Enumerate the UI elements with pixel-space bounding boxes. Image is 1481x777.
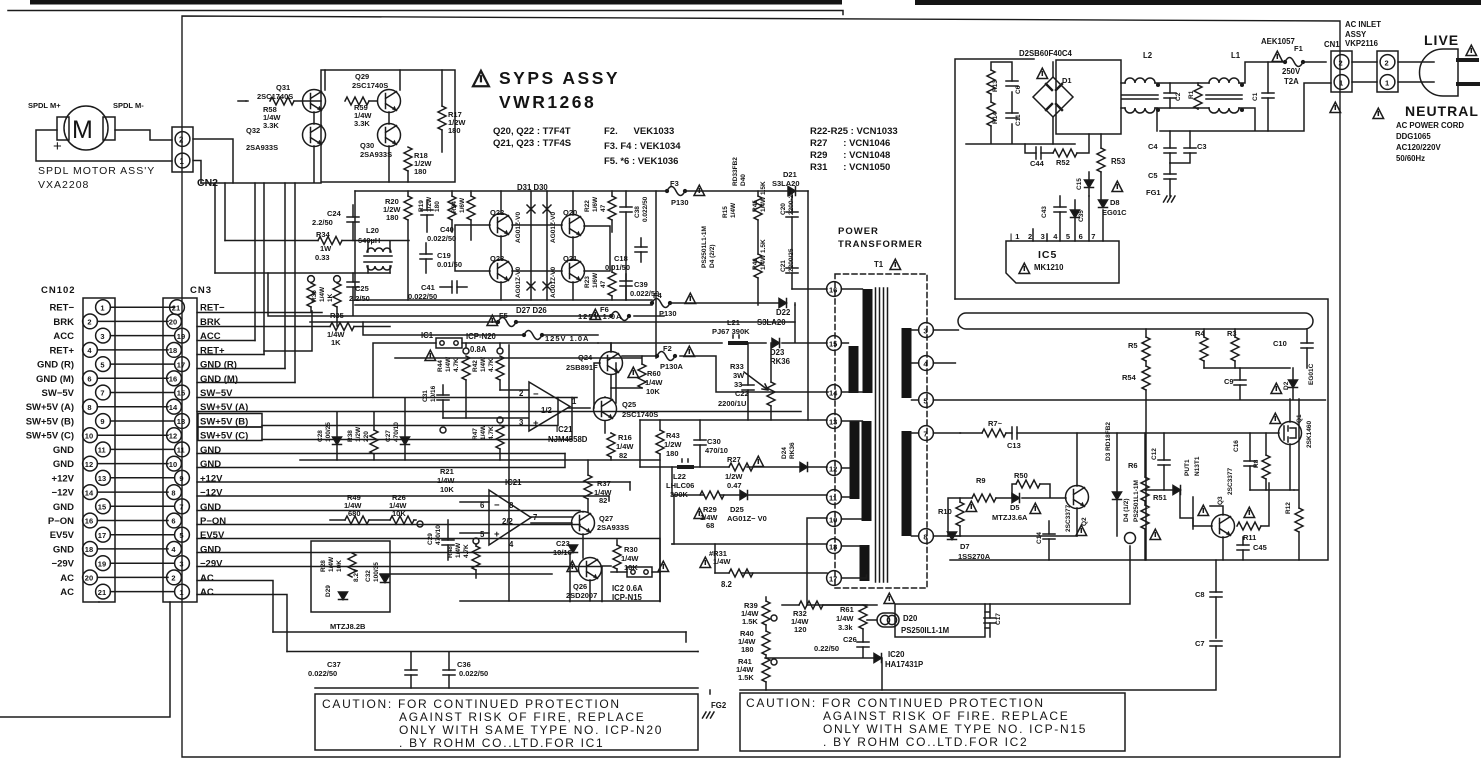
resistor R59 — [345, 97, 369, 105]
svg-text:17: 17 — [829, 574, 837, 583]
wire RET- row — [197, 312, 322, 314]
svg-text:1K: 1K — [331, 338, 341, 347]
capacitor C44 — [1036, 147, 1041, 159]
svg-text:R54: R54 — [1122, 373, 1137, 382]
svg-text:D40: D40 — [740, 174, 747, 186]
R11 — [1237, 522, 1261, 530]
pin7 rail R7 C13 — [960, 432, 1279, 434]
svg-text:C29: C29 — [427, 533, 434, 545]
op-amp IC21 2/2 — [489, 490, 531, 545]
svg-text:D21: D21 — [783, 170, 797, 179]
pin11 row: R29 D25 — [674, 494, 827, 496]
svg-text:AC: AC — [200, 573, 214, 584]
T1 pin 7 — [919, 426, 934, 441]
svg-text:1: 1 — [100, 303, 104, 312]
T1 pin 17 — [827, 571, 842, 586]
wires L2 to L1 — [1155, 83, 1209, 108]
svg-text:13: 13 — [829, 417, 837, 426]
R28 D29 C32 box — [311, 541, 390, 612]
CN102 pin 8 (SW+5V (A)) — [83, 399, 98, 414]
svg-text:F4: F4 — [653, 291, 663, 300]
svg-text:D7: D7 — [960, 542, 970, 551]
svg-text:6: 6 — [87, 375, 91, 384]
T1 pin 14 — [827, 385, 842, 400]
svg-text:R61: R61 — [840, 605, 854, 614]
svg-text:Q3: Q3 — [1217, 496, 1224, 505]
svg-text:1/4W: 1/4W — [730, 202, 737, 218]
svg-text:DDG1065: DDG1065 — [1396, 132, 1431, 141]
svg-text:1/4W: 1/4W — [455, 542, 462, 558]
svg-text:Q25: Q25 — [622, 400, 636, 409]
AC feed wires to transformer bottom — [570, 482, 660, 602]
transistor Q2 — [1066, 486, 1089, 509]
CN3 pin 3 (-29V) — [175, 556, 190, 571]
svg-text:4.7K: 4.7K — [463, 544, 470, 558]
T1 pin 10 — [827, 512, 842, 527]
svg-text:POWER: POWER — [838, 226, 879, 237]
svg-text:NEUTRAL: NEUTRAL — [1405, 103, 1479, 119]
svg-text:F3. F4 : VEK1034: F3. F4 : VEK1034 — [604, 141, 681, 152]
svg-text:2/2: 2/2 — [502, 517, 514, 526]
svg-text:P130: P130 — [671, 198, 689, 207]
CN3 pin 7 (GND) — [175, 499, 190, 514]
CN3 pin 1 (AC) — [175, 584, 190, 599]
svg-text:1: 1 — [1339, 78, 1343, 87]
svg-text:C5: C5 — [1148, 171, 1158, 180]
svg-text:SW+5V (A): SW+5V (A) — [26, 402, 74, 413]
svg-text:1: 1 — [572, 397, 577, 406]
winding bar primary A — [863, 289, 873, 393]
svg-text:4: 4 — [87, 346, 92, 355]
svg-text:C17: C17 — [995, 613, 1002, 625]
CN3 pin 4 (GND) — [167, 542, 182, 557]
svg-text:3.3K: 3.3K — [263, 121, 279, 130]
transistor Q20 — [562, 215, 585, 238]
svg-text:R16: R16 — [618, 433, 632, 442]
svg-text:AC POWER CORD: AC POWER CORD — [1396, 121, 1464, 130]
svg-text:GND: GND — [200, 544, 221, 555]
winding bar C — [850, 421, 860, 499]
CN3 pin 17 (GND (R)) — [175, 357, 190, 372]
svg-text:F5. *6 : VEK1036: F5. *6 : VEK1036 — [604, 156, 678, 167]
CN102 pin 3 (ACC) — [96, 328, 111, 343]
svg-text:D27 D26: D27 D26 — [516, 306, 547, 315]
svg-text:C13: C13 — [1007, 441, 1021, 450]
svg-text:180: 180 — [448, 126, 461, 135]
svg-text:82: 82 — [599, 496, 607, 505]
svg-text:R44: R44 — [437, 360, 444, 372]
svg-text:SW−5V: SW−5V — [42, 388, 75, 399]
svg-text:CN1: CN1 — [1324, 40, 1340, 49]
resistor R60 — [638, 364, 646, 388]
connector CN2 — [172, 127, 193, 172]
svg-text:4: 4 — [509, 540, 514, 549]
svg-text:1SS270A: 1SS270A — [958, 552, 991, 561]
CN3 pin 8 (-12V) — [167, 485, 182, 500]
CN3 pin 6 (P-ON) — [167, 513, 182, 528]
svg-text:NJM4558D: NJM4558D — [548, 435, 588, 444]
svg-text:Q29: Q29 — [355, 72, 369, 81]
svg-text:33: 33 — [734, 380, 742, 389]
svg-text:IC21: IC21 — [505, 478, 522, 487]
svg-text:125V 1.0A: 125V 1.0A — [578, 312, 622, 321]
svg-text:12: 12 — [169, 431, 177, 440]
warning triangle title — [473, 71, 489, 86]
svg-text:T1: T1 — [874, 260, 884, 269]
R58 left feeder — [238, 100, 246, 102]
svg-text:0.022/50: 0.022/50 — [308, 669, 337, 678]
svg-text:1: 1 — [1385, 78, 1389, 87]
svg-text:12: 12 — [85, 460, 93, 469]
svg-text:1/4W: 1/4W — [616, 442, 634, 451]
svg-text:Q23: Q23 — [490, 254, 504, 263]
svg-text:|1 2 3 4 5 6 7: |1 2 3 4 5 6 7 — [1010, 232, 1099, 241]
svg-text:Q32: Q32 — [246, 126, 260, 135]
bridge rectifier D1 diamond — [1033, 77, 1073, 117]
wires CN1 to inlet to plug — [1352, 62, 1434, 82]
svg-text:Q20: Q20 — [563, 208, 577, 217]
AC inlet connector VKP2116 — [1377, 51, 1398, 92]
wire SW-5V row — [197, 397, 577, 399]
wire P-ON row — [197, 524, 580, 526]
CN3 pin 11 (GND) — [175, 442, 190, 457]
svg-text:10: 10 — [829, 515, 837, 524]
winding bar G secondary — [902, 431, 912, 536]
svg-text:C43: C43 — [1041, 206, 1048, 218]
CN102 pin 2 (BRK) — [83, 314, 98, 329]
svg-text:220: 220 — [363, 431, 370, 442]
svg-text:16: 16 — [829, 285, 837, 294]
svg-text:21: 21 — [172, 303, 180, 312]
transistor Q32 — [303, 124, 326, 147]
svg-text:D23: D23 — [770, 348, 785, 357]
svg-text:AEK1057: AEK1057 — [1261, 37, 1295, 46]
svg-text:0.022/50: 0.022/50 — [459, 669, 488, 678]
svg-text:9: 9 — [179, 474, 183, 483]
svg-text:0.022/50: 0.022/50 — [427, 234, 456, 243]
svg-text:2.2/50: 2.2/50 — [312, 218, 333, 227]
svg-text:C26: C26 — [843, 635, 857, 644]
svg-text:16: 16 — [169, 375, 177, 384]
svg-text:VXA2208: VXA2208 — [38, 179, 89, 191]
svg-text:C45: C45 — [1253, 543, 1267, 552]
svg-text:CN3: CN3 — [190, 285, 212, 296]
svg-text:16: 16 — [85, 517, 93, 526]
F6 row — [268, 273, 664, 316]
wire +12V row — [197, 481, 630, 483]
wires L20 area — [368, 241, 390, 273]
svg-text:CN102: CN102 — [41, 285, 76, 296]
svg-text:7: 7 — [923, 429, 927, 438]
heavy bus from pin 3 — [958, 313, 1313, 329]
svg-text:250V: 250V — [1282, 67, 1301, 76]
CN102 pin 16 (P-ON) — [83, 513, 98, 528]
warning triangle near D1 — [1037, 68, 1048, 78]
svg-text:D2: D2 — [1283, 381, 1290, 390]
transistor Q26 — [579, 558, 602, 581]
svg-text:C6: C6 — [1015, 85, 1022, 94]
svg-text:RET+: RET+ — [49, 345, 74, 356]
resistor R1 — [1194, 85, 1202, 109]
fuse F1 — [1284, 58, 1305, 67]
wire GND (R) row — [197, 368, 285, 370]
svg-text:2SA933S: 2SA933S — [360, 150, 392, 159]
svg-text:C40: C40 — [440, 225, 454, 234]
svg-text:R33: R33 — [730, 362, 744, 371]
label boxes SW+5V (B)/(C) — [198, 414, 262, 428]
svg-text:C23: C23 — [556, 539, 570, 548]
wire GND11 row — [197, 453, 565, 455]
CN3 pin 14 (SW+5V (A)) — [167, 399, 182, 414]
CN3 pin 16 (GND (M)) — [167, 371, 182, 386]
svg-text:7: 7 — [179, 503, 183, 512]
svg-text:14: 14 — [829, 388, 838, 397]
svg-text:R9: R9 — [976, 476, 986, 485]
svg-text:EV5V: EV5V — [50, 530, 75, 541]
svg-text:R8: R8 — [1253, 459, 1260, 468]
svg-text:. BY ROHM CO..LTD.FOR IC1: . BY ROHM CO..LTD.FOR IC1 — [399, 736, 604, 750]
svg-text:FG2: FG2 — [711, 701, 727, 710]
svg-text:GND: GND — [53, 502, 74, 513]
svg-text:C16: C16 — [1233, 440, 1240, 452]
svg-text:F2. VEK1033: F2. VEK1033 — [604, 126, 674, 137]
svg-text:8.2: 8.2 — [721, 580, 733, 589]
capacitor C1 — [1262, 93, 1274, 98]
op-amp IC21 1/2 — [529, 382, 570, 431]
wire BRK row — [197, 326, 390, 328]
D2 EG01C — [1271, 383, 1282, 393]
T1 pin 18 — [827, 539, 842, 554]
svg-text:−12V: −12V — [52, 488, 75, 499]
svg-text:+12V: +12V — [52, 473, 75, 484]
top-right thick bar — [915, 0, 1481, 5]
svg-text:14: 14 — [85, 488, 94, 497]
svg-text:S3LA20: S3LA20 — [772, 179, 800, 188]
bottom rail D27 D26 — [355, 299, 652, 301]
svg-text:2SC3377: 2SC3377 — [1227, 468, 1234, 495]
svg-text:R28: R28 — [320, 560, 327, 572]
svg-text:PS2501L1-1M: PS2501L1-1M — [701, 226, 708, 268]
CN102 pin 7 (SW-5V) — [96, 385, 111, 400]
IC5 pin stubs — [1033, 196, 1103, 241]
svg-text:1/4W: 1/4W — [713, 557, 731, 566]
CN3 pin 20 (BRK) — [167, 314, 182, 329]
staircase verticals — [640, 420, 715, 573]
svg-text:R6: R6 — [1128, 461, 1138, 470]
svg-text:15: 15 — [177, 389, 185, 398]
svg-text:2: 2 — [1385, 58, 1389, 67]
F4 row — [355, 303, 780, 305]
svg-text:0.22/50: 0.22/50 — [814, 644, 839, 653]
pin15 line with L21 and D23 — [598, 342, 827, 344]
wire CN2 pin2 right then down — [193, 139, 233, 183]
wire GND7 row — [197, 510, 580, 512]
CN3 pin 19 (ACC) — [175, 328, 190, 343]
op-amp section frame lines — [380, 345, 641, 601]
wire AC2 row — [197, 581, 273, 633]
svg-text:D29: D29 — [325, 585, 332, 597]
R30 — [613, 545, 621, 569]
CN102 pin 21 (AC) — [96, 584, 111, 599]
svg-text:Q31: Q31 — [276, 83, 290, 92]
svg-text:IC20: IC20 — [888, 650, 905, 659]
svg-text:47: 47 — [600, 204, 607, 212]
svg-text:3.3K: 3.3K — [354, 119, 370, 128]
svg-text:D8: D8 — [1110, 198, 1120, 207]
svg-text:GND: GND — [200, 459, 221, 470]
svg-text:ONLY WITH SAME TYPE NO. ICP-N1: ONLY WITH SAME TYPE NO. ICP-N15 — [823, 722, 1087, 736]
svg-text:R5: R5 — [1128, 341, 1138, 350]
top rail — [355, 190, 808, 192]
wire GND (M) row — [197, 382, 295, 384]
svg-text:R60: R60 — [647, 369, 661, 378]
svg-text:AC: AC — [200, 587, 214, 598]
transistor Q3 — [1212, 515, 1235, 538]
Q1 2SK1460 MOSFET — [1270, 413, 1281, 423]
svg-text:Q2: Q2 — [1081, 517, 1088, 526]
svg-text:ONLY WITH SAME TYPE NO. ICP-N2: ONLY WITH SAME TYPE NO. ICP-N20 — [399, 723, 663, 737]
svg-text:IC1: IC1 — [421, 331, 434, 340]
svg-text:C20: C20 — [780, 203, 787, 215]
svg-text:Q21, Q23 : T7F4S: Q21, Q23 : T7F4S — [493, 138, 571, 149]
svg-text:AC: AC — [60, 573, 74, 584]
transistor Q21 — [562, 260, 585, 283]
wire motor right to CN2 pin2 — [115, 130, 172, 140]
svg-text:R37: R37 — [597, 479, 611, 488]
svg-text:2: 2 — [171, 574, 175, 583]
diode marks D31/D30 columns — [527, 191, 551, 300]
svg-text:5: 5 — [179, 531, 183, 540]
CN3 pin 15 (SW-5V) — [175, 385, 190, 400]
svg-text:R7~: R7~ — [988, 419, 1003, 428]
T1 pin 5 — [919, 393, 934, 408]
motor M — [64, 106, 108, 150]
IC1 fuse row — [373, 343, 598, 398]
wire -12V row — [197, 495, 609, 497]
svg-text:C19: C19 — [437, 251, 451, 260]
svg-text:TRANSFORMER: TRANSFORMER — [838, 239, 923, 250]
svg-text:−29V: −29V — [52, 559, 75, 570]
svg-text:D24: D24 — [781, 447, 788, 459]
svg-text:ACC: ACC — [53, 331, 74, 342]
capacitor C30 — [694, 440, 706, 445]
bridge rectifier D1 box — [1056, 60, 1121, 134]
svg-text:0.8A: 0.8A — [470, 345, 487, 354]
svg-text:AG01Z− V0: AG01Z− V0 — [727, 514, 767, 523]
svg-text:1/4W: 1/4W — [319, 286, 326, 302]
vertical feeders to CN3 rows — [215, 183, 295, 383]
top-left thin rule — [8, 11, 843, 15]
svg-text:L21: L21 — [727, 318, 740, 327]
svg-text:GND: GND — [53, 544, 74, 555]
svg-text:F2: F2 — [663, 344, 672, 353]
junction R36 column — [308, 276, 315, 283]
svg-text:R38: R38 — [347, 430, 354, 442]
resistor R13 — [987, 70, 995, 94]
T1 pin 8 — [919, 529, 934, 544]
pin10 row — [807, 518, 827, 605]
svg-text:4.7K: 4.7K — [453, 358, 460, 372]
pin14 line F2 — [622, 356, 828, 392]
svg-text:4.7K: 4.7K — [488, 426, 495, 440]
svg-text:M: M — [72, 116, 93, 144]
diode D22 — [779, 299, 787, 308]
winding bar primary B — [849, 346, 859, 393]
svg-text:1: 1 — [180, 157, 185, 166]
svg-text:D3 RD18FB2: D3 RD18FB2 — [1105, 422, 1112, 461]
svg-text:RET−: RET− — [49, 303, 74, 314]
CN102 pin 15 (GND) — [96, 499, 111, 514]
svg-text:FG1: FG1 — [1146, 188, 1161, 197]
svg-text:L22: L22 — [673, 472, 686, 481]
svg-text:15: 15 — [98, 503, 106, 512]
svg-text:−: − — [533, 389, 539, 400]
svg-text:−: − — [494, 500, 500, 511]
svg-text:C9: C9 — [1224, 377, 1234, 386]
T1 pin 13 — [827, 414, 842, 429]
svg-text:L20: L20 — [366, 226, 379, 235]
svg-text:19: 19 — [98, 559, 106, 568]
svg-text:N13T1: N13T1 — [1194, 456, 1201, 476]
svg-text:R53: R53 — [1111, 157, 1126, 166]
svg-text:8.2V: 8.2V — [353, 568, 360, 582]
svg-text:125V 1.0A: 125V 1.0A — [545, 334, 589, 343]
dashed outline — [835, 274, 927, 588]
svg-text:120: 120 — [794, 625, 807, 634]
caution box 2 — [740, 693, 1125, 751]
svg-text:1/2W: 1/2W — [664, 440, 682, 449]
wire SW+5V (A) row — [197, 411, 801, 413]
svg-text:R13: R13 — [992, 80, 999, 92]
svg-text:1/6W: 1/6W — [592, 272, 599, 288]
neutral rail — [1157, 83, 1331, 131]
svg-text:C11: C11 — [1015, 114, 1022, 126]
svg-text:2SA933S: 2SA933S — [597, 523, 629, 532]
svg-text:T2A: T2A — [1284, 77, 1299, 86]
capacitor C2 — [1164, 93, 1176, 98]
transistor Q24 — [600, 352, 623, 375]
svg-text:8: 8 — [923, 532, 927, 541]
svg-text:640µH: 640µH — [358, 236, 380, 245]
CN3 pin 13 (SW+5V (B)) — [175, 414, 190, 429]
motor brush right — [103, 117, 115, 140]
pin12 row: L22 R27 D24 — [640, 466, 827, 468]
svg-text:4: 4 — [171, 545, 176, 554]
CN102 pin 14 (-12V) — [83, 485, 98, 500]
svg-text:ASSY: ASSY — [1345, 30, 1367, 39]
transistor Q27 — [572, 512, 595, 535]
T1 pin 4 — [919, 356, 934, 371]
svg-text:1W: 1W — [320, 244, 332, 253]
svg-text:470/10: 470/10 — [705, 446, 728, 455]
resistor R53 — [1097, 148, 1105, 172]
svg-text:MK1210: MK1210 — [1034, 263, 1064, 272]
svg-text:R23: R23 — [584, 276, 591, 288]
fuse F3 — [666, 187, 687, 196]
svg-text:2SA933S: 2SA933S — [246, 143, 278, 152]
svg-text:11: 11 — [177, 446, 185, 455]
svg-text:PUT1: PUT1 — [1184, 459, 1191, 476]
svg-text:C31: C31 — [422, 390, 429, 402]
svg-text:1/4W: 1/4W — [480, 424, 487, 440]
svg-text:47: 47 — [600, 280, 607, 288]
svg-text:GND (M): GND (M) — [36, 374, 74, 385]
live rail to F1 — [1239, 62, 1326, 83]
pin16 feeder — [792, 288, 827, 290]
T1 pin 12 — [827, 461, 842, 476]
wire CN2 pin1 right then down — [193, 161, 201, 184]
svg-text:R10: R10 — [938, 507, 952, 516]
